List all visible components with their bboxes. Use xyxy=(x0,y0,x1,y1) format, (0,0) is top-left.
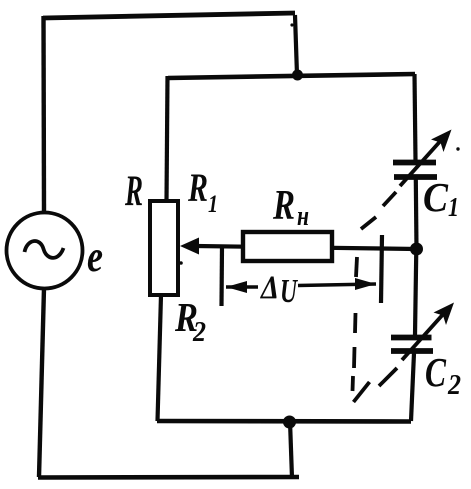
ΔU left arrow xyxy=(226,285,258,289)
wiper arrow xyxy=(180,238,199,255)
AC source e xyxy=(7,213,83,289)
speck below wiper xyxy=(179,261,183,265)
wire inner bottom xyxy=(157,419,411,424)
mechanical link dashed C2 tail xyxy=(379,368,397,386)
capacitor C2 arrow xyxy=(402,311,446,360)
wire outer bottom xyxy=(38,475,299,480)
svg-text:2: 2 xyxy=(447,369,461,401)
svg-text:U: U xyxy=(280,273,299,310)
node bottom junction xyxy=(283,416,296,429)
wire right vertical mid xyxy=(414,179,419,249)
wire right vertical lower xyxy=(415,249,416,335)
svg-text:R: R xyxy=(187,165,208,210)
wire outer top-right drop xyxy=(295,15,297,75)
wire wiper to load xyxy=(196,246,416,249)
svg-text:1: 1 xyxy=(208,191,218,218)
wire right vertical bottom xyxy=(411,353,414,421)
wire below source xyxy=(39,288,44,477)
speck right of C1 arrow xyxy=(456,147,459,150)
wire right vertical upper xyxy=(415,74,416,160)
node top junction xyxy=(292,70,303,81)
mechanical link dashed vertical xyxy=(356,257,357,277)
wire bottom connector xyxy=(290,421,292,478)
potentiometer R body xyxy=(150,201,178,295)
svg-text:Δ: Δ xyxy=(259,270,279,306)
capacitor C2 xyxy=(391,335,432,341)
svg-text:н: н xyxy=(297,200,309,232)
svg-text:R: R xyxy=(124,168,143,215)
node right junction xyxy=(410,243,423,256)
resistor Rн body xyxy=(243,232,332,261)
mechanical link dashed C1 tail xyxy=(383,192,396,206)
ΔU right arrow xyxy=(298,284,376,286)
capacitor C1 arrow xyxy=(400,137,444,186)
svg-text:2: 2 xyxy=(192,316,206,348)
wire outer top xyxy=(43,13,295,18)
svg-text:1: 1 xyxy=(448,192,459,222)
mechanical link elbow xyxy=(354,382,370,402)
wire pot top lead xyxy=(167,76,168,202)
svg-text:C: C xyxy=(425,349,446,395)
ΔU left bar xyxy=(219,246,224,306)
svg-text:e: e xyxy=(87,232,103,281)
ΔU right bar xyxy=(381,235,382,303)
wire outer left vertical xyxy=(41,16,46,212)
capacitor C1 xyxy=(393,160,436,166)
speck near top corner xyxy=(290,23,293,26)
wire pot bottom lead xyxy=(158,295,162,421)
wire inner top xyxy=(168,74,415,78)
svg-text:R: R xyxy=(272,183,295,229)
svg-text:C: C xyxy=(423,174,449,220)
